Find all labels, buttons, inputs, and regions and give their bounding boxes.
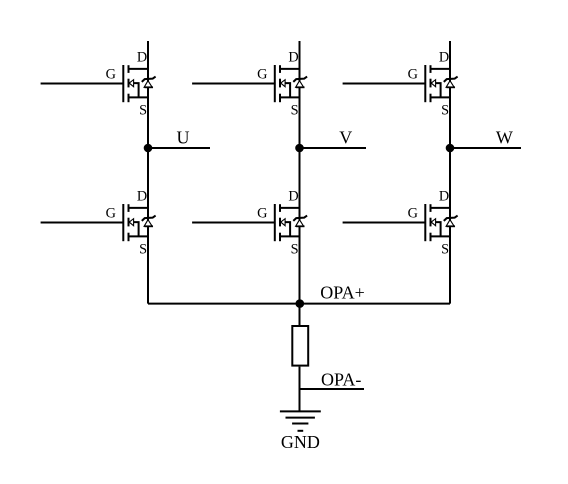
svg-text:GND: GND: [281, 432, 320, 452]
svg-text:OPA+: OPA+: [320, 283, 365, 303]
svg-text:OPA-: OPA-: [321, 370, 361, 390]
svg-text:U: U: [177, 127, 190, 147]
svg-text:W: W: [496, 127, 513, 147]
svg-text:V: V: [339, 127, 352, 147]
